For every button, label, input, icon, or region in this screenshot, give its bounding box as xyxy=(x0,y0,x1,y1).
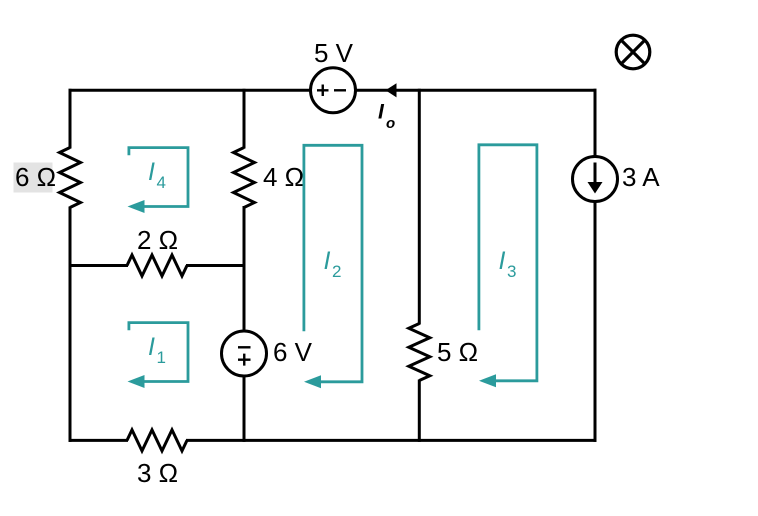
resistor 6 ohm (left rail, vertical zigzag) xyxy=(60,148,81,208)
svg-text:I: I xyxy=(499,247,506,275)
resistor 5 ohm (mid-right branch, vertical zigzag) xyxy=(409,324,430,381)
svg-text:5 V: 5 V xyxy=(314,38,354,68)
crossed-circle symbol (top right) xyxy=(616,35,650,69)
current arrow Io on top wire (points left) xyxy=(386,83,397,97)
voltage source 5V (circle on top wire) xyxy=(311,68,356,113)
mesh current loop I2 (teal, tall, arrow bottom-left) xyxy=(304,145,362,381)
resistor 3 ohm (bottom wire horizontal zigzag) xyxy=(127,430,187,451)
resistor 2 ohm (middle horizontal zigzag) xyxy=(127,255,187,276)
svg-text:I: I xyxy=(324,247,331,275)
svg-text:6 V: 6 V xyxy=(273,337,313,367)
mesh loop I3 arrowhead xyxy=(479,374,496,387)
wire: middle horizontal segment left of 2-ohm resistor xyxy=(69,264,129,267)
svg-text:3 Ω: 3 Ω xyxy=(137,458,178,488)
svg-text:4 Ω: 4 Ω xyxy=(263,162,304,192)
current source 3A (circle on right rail with down arrow) xyxy=(573,157,618,202)
svg-text:I: I xyxy=(148,158,155,186)
3A source arrow head xyxy=(588,182,603,194)
resistor 4 ohm (middle branch, vertical zigzag) xyxy=(234,148,255,208)
svg-text:4: 4 xyxy=(157,173,166,192)
3A source arrow shaft xyxy=(594,163,597,186)
svg-text:1: 1 xyxy=(157,348,166,367)
mesh loop I1 arrowhead xyxy=(128,375,145,388)
wire: right rail upper segment xyxy=(594,89,597,157)
svg-text:o: o xyxy=(386,115,395,132)
svg-text:2: 2 xyxy=(332,262,341,281)
svg-text:6 Ω: 6 Ω xyxy=(15,162,56,192)
mesh loop I4 arrowhead xyxy=(128,200,145,213)
wire: middle branch (x=244) top stub from top wire to 4-ohm resistor xyxy=(243,89,246,149)
6V source minus terminal (top) xyxy=(238,346,251,348)
wire: mid-right branch below 5-ohm resistor xyxy=(418,380,421,442)
wire: middle horizontal segment right of 2-ohm resistor xyxy=(186,264,246,267)
wire: middle branch below 6V source to bottom wire xyxy=(243,376,246,442)
5V source minus terminal xyxy=(334,89,346,91)
6V source plus terminal (bottom) xyxy=(238,354,251,366)
wire: left rail lower segment xyxy=(69,207,72,442)
wire: right rail lower segment xyxy=(594,201,597,442)
mesh current loop I4 (teal, arrow bottom-left) xyxy=(129,148,188,207)
wire: mid-right branch (x=419.3) from top wire to 5-ohm resistor xyxy=(418,89,421,325)
svg-text:2 Ω: 2 Ω xyxy=(137,225,178,255)
svg-text:3 A: 3 A xyxy=(622,162,660,192)
mesh current loop I1 (teal, arrow bottom-left) xyxy=(129,323,188,382)
mesh current loop I3 (teal, tall, arrow bottom-left) xyxy=(479,145,537,381)
wire: left rail upper stub xyxy=(69,89,72,149)
mesh loop I2 arrowhead xyxy=(304,375,321,388)
voltage source 6V (circle on middle branch) xyxy=(222,331,267,376)
wire: top side, right segment (5V source to right rail) xyxy=(356,89,597,92)
wire: bottom side left segment xyxy=(69,439,129,442)
wire: bottom side right segment xyxy=(186,439,597,442)
svg-text:3: 3 xyxy=(507,262,516,281)
svg-text:I: I xyxy=(148,333,155,361)
5V source plus terminal xyxy=(317,85,329,97)
wire: middle branch between 4-ohm resistor and 6V source xyxy=(243,206,246,332)
label highlight behind 6-ohm value xyxy=(14,163,53,193)
wire: top side, left segment (node from left rail to 5V source) xyxy=(69,89,311,92)
svg-text:5 Ω: 5 Ω xyxy=(437,337,478,367)
